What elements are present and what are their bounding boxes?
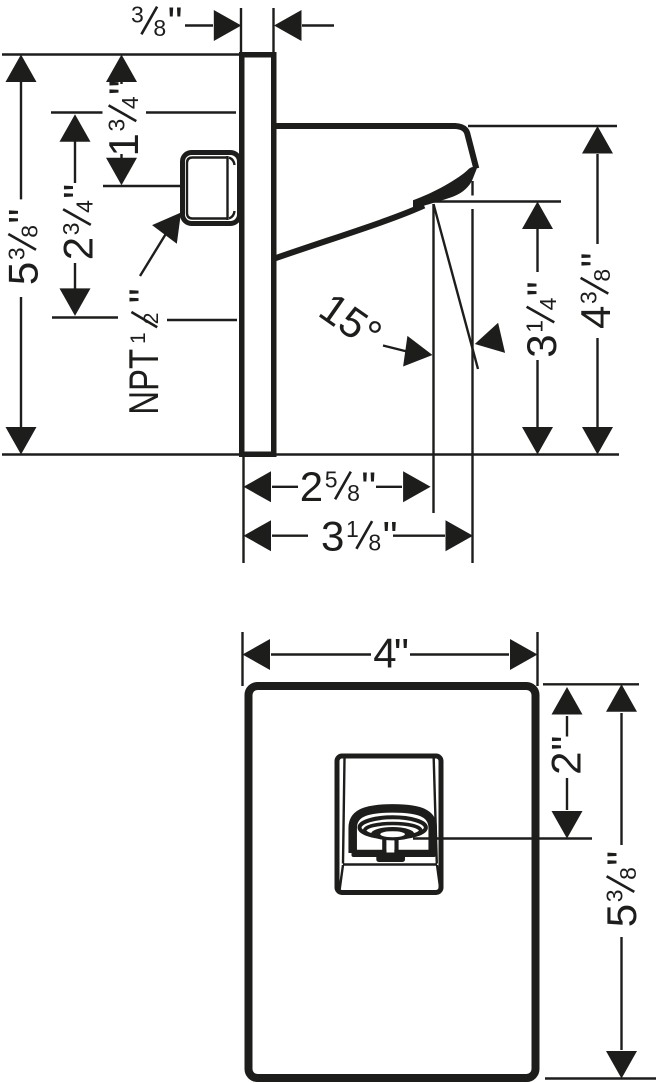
svg-text:3: 3 — [104, 119, 130, 132]
svg-text:1: 1 — [127, 332, 150, 344]
svg-text:8: 8 — [17, 225, 43, 238]
svg-text:4: 4 — [572, 306, 619, 329]
svg-text:15°: 15° — [311, 283, 390, 358]
svg-text:": " — [168, 0, 183, 45]
svg-text:2: 2 — [543, 752, 590, 775]
svg-text:4: 4 — [117, 96, 143, 109]
svg-text:": " — [0, 209, 47, 224]
svg-text:8: 8 — [615, 867, 641, 880]
svg-text:": " — [394, 630, 409, 677]
svg-text:NPT: NPT — [120, 349, 167, 415]
svg-text:8: 8 — [368, 530, 381, 556]
svg-text:": " — [361, 463, 376, 510]
svg-text:3: 3 — [576, 291, 602, 304]
svg-text:5: 5 — [0, 262, 47, 285]
svg-text:8: 8 — [347, 480, 360, 506]
svg-text:4: 4 — [535, 297, 561, 310]
svg-text:3: 3 — [518, 334, 565, 357]
svg-text:8: 8 — [153, 15, 166, 41]
svg-text:": " — [120, 288, 167, 303]
svg-text:": " — [383, 513, 398, 560]
svg-text:1: 1 — [522, 320, 548, 333]
svg-text:": " — [572, 252, 619, 267]
svg-text:": " — [543, 736, 590, 751]
svg-text:4: 4 — [72, 200, 98, 213]
svg-text:2: 2 — [55, 237, 102, 260]
svg-text:3: 3 — [131, 2, 144, 28]
svg-text:3: 3 — [321, 513, 344, 560]
svg-text:8: 8 — [589, 269, 615, 282]
svg-text:3: 3 — [602, 890, 628, 903]
svg-text:1: 1 — [346, 516, 359, 542]
svg-text:5: 5 — [598, 904, 645, 927]
svg-text:2: 2 — [140, 313, 163, 325]
svg-text:3: 3 — [3, 247, 29, 260]
svg-text:": " — [518, 281, 565, 296]
svg-text:2: 2 — [300, 463, 323, 510]
svg-text:3: 3 — [58, 223, 84, 236]
svg-text:": " — [55, 184, 102, 199]
svg-text:": " — [100, 80, 147, 95]
svg-text:5: 5 — [325, 467, 338, 493]
svg-text:": " — [598, 851, 645, 866]
svg-text:1: 1 — [100, 133, 147, 156]
